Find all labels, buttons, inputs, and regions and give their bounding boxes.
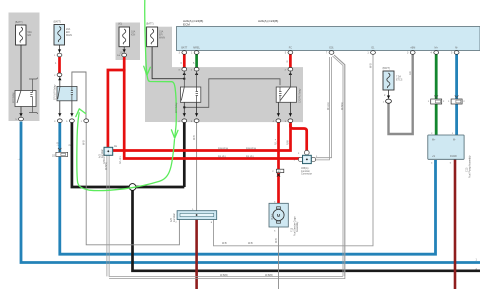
fuse F4 EFI MAIN 15A: [147, 27, 158, 47]
green arrowhead C: [76, 109, 86, 117]
wire red C/OPN relay to fuel pump motor: [277, 123, 280, 204]
svg-text:ETCS: ETCS: [396, 79, 403, 82]
wire red ECM BATT to EFI relay: [183, 55, 186, 68]
svg-text:+S: +S: [432, 155, 435, 158]
wire maroon fuel pump FGND to bottom edge: [454, 159, 457, 289]
fuse F1 EFI 50A: [16, 25, 27, 45]
green highlight line from page top: [145, 0, 147, 75]
inline connector on green M+ wire: [431, 96, 442, 105]
wire gray W-B relay2 coil down to joint box: [86, 123, 179, 245]
svg-text:R/W-R/W: R/W-R/W: [246, 147, 257, 150]
svg-text:EFI: EFI: [28, 34, 32, 37]
connector oval above relay2: [57, 73, 62, 77]
svg-text:M+: M+: [435, 47, 439, 50]
svg-text:MAIN: MAIN: [66, 34, 72, 37]
svg-text:EFI Relay: EFI Relay: [12, 92, 15, 103]
svg-text:W-B(R): W-B(R): [265, 274, 273, 277]
svg-text:R/L: R/L: [274, 141, 277, 145]
svg-text:1G: 1G: [120, 52, 123, 55]
junction dot EFI relay feed: [183, 78, 185, 80]
svg-text:FC: FC: [289, 47, 292, 50]
svg-text:W-L(G): W-L(G): [327, 102, 330, 110]
svg-text:Pump: Pump: [271, 213, 274, 220]
fuse F3 IGN 10A: [119, 27, 130, 47]
svg-text:C/OPN Relay: C/OPN Relay: [299, 88, 302, 103]
svg-text:Junction: Junction: [101, 148, 104, 158]
wire maroon junction box to bottom edge: [195, 220, 198, 289]
green arrowhead B: [171, 130, 178, 138]
gray panel fuse block column 3: [116, 23, 141, 61]
relay R1: [15, 91, 36, 107]
wire relay1 aux contact with off-page hooks: [29, 78, 38, 115]
svg-text:W-B(S): W-B(S): [105, 162, 108, 170]
svg-text:(IG): (IG): [118, 23, 122, 26]
svg-text:W-B: W-B: [370, 63, 373, 68]
wire black EFI relay down: [183, 123, 186, 188]
connector oval below fuse3: [122, 53, 127, 57]
arrow below fuse3: [123, 47, 125, 53]
svg-text:Connector: Connector: [301, 173, 312, 176]
relay U3 C/OPN relay: [276, 87, 296, 102]
svg-text:M-: M-: [453, 139, 456, 142]
svg-text:W-B(R): W-B(R): [220, 274, 228, 277]
inline connector on blue M- wire: [451, 96, 462, 105]
svg-text:W-B: W-B: [248, 242, 253, 245]
wire blue ECM M- to throttle motor: [455, 55, 458, 136]
gray panel fuse column 4: [145, 27, 172, 122]
svg-text:R/W-R/W: R/W-R/W: [218, 147, 229, 150]
fuse F5 ETCS 7.5A: [383, 71, 394, 90]
svg-text:Fuel Pump Assembly: Fuel Pump Assembly: [468, 155, 471, 178]
svg-text:IGN: IGN: [131, 34, 136, 37]
svg-text:Assembly: Assembly: [296, 221, 299, 232]
connector oval below fuse5: [386, 99, 392, 103]
svg-text:L-B: L-B: [56, 142, 59, 146]
svg-text:R/W: R/W: [286, 140, 289, 145]
wire white W-B ECM E01 straight to junction connector B: [316, 57, 330, 160]
arrow below fuse2: [59, 45, 61, 53]
relay U2 EFI relay: [180, 87, 200, 102]
ECM pin ovals: [182, 51, 459, 55]
line ovals to EFI relay: [184, 71, 196, 87]
svg-text:(BATT): (BATT): [54, 21, 62, 24]
svg-text:(BATT): (BATT): [383, 67, 391, 70]
arrows into EFI relay: [183, 72, 186, 75]
svg-text:R/L-R/L: R/L-R/L: [218, 155, 227, 158]
svg-text:Junction: Junction: [173, 212, 176, 222]
svg-text:R/L-R/L: R/L-R/L: [246, 155, 255, 158]
junction dot EFI relay output: [183, 106, 185, 108]
junction connector B round: [298, 150, 315, 163]
relay R2 EFI no2: [57, 86, 77, 100]
svg-text:W-B(R): W-B(R): [341, 102, 344, 110]
wire gray W-B joint box right to ECM E1: [214, 55, 374, 246]
svg-text:GR: GR: [409, 71, 412, 75]
joint connector A (red): [104, 147, 113, 155]
wire black junction drop to bottom bus: [133, 187, 480, 271]
svg-text:MAIN: MAIN: [159, 37, 165, 40]
arrows below relay2: [59, 101, 61, 117]
wire gray W-B EFI relay coil down to joint box top: [196, 123, 198, 211]
svg-text:EFI M/P Relay: EFI M/P Relay: [54, 84, 57, 100]
svg-text:MREL: MREL: [193, 47, 200, 50]
svg-text:A21: A21: [278, 170, 281, 173]
wire relay2 coil to ground branch: [72, 72, 86, 119]
ECM U1 block: [177, 27, 480, 51]
connector ovals below relay2: [57, 119, 62, 123]
wire black relay2/EFI relay to ground bus: [72, 123, 184, 188]
connector oval below fuse2: [57, 53, 62, 57]
svg-text:+BM: +BM: [410, 47, 415, 50]
green arrowhead A: [144, 66, 151, 75]
svg-text:1D: 1D: [52, 155, 55, 158]
gray panel fuse/relay block column 1: [9, 13, 40, 122]
svg-text:(BATT): (BATT): [146, 23, 154, 26]
wire red fuse3 down to lower rail: [124, 69, 301, 159]
pin numbers near connector ovals: [15, 55, 465, 232]
svg-text:(BATT): (BATT): [15, 21, 23, 24]
wire red fuse2 to EFI no2 relay: [58, 57, 61, 73]
svg-text:ECM: ECM: [183, 23, 190, 27]
svg-text:FGND: FGND: [450, 155, 457, 158]
junction node circle on black bus: [129, 184, 136, 191]
arrows below EFI relay: [183, 102, 185, 116]
svg-text:EFI Relay: EFI Relay: [175, 102, 178, 113]
inline connector on pump red wire: [276, 169, 283, 176]
arrow into C/OPN relay: [289, 72, 292, 75]
arrows below C/OPN relay: [277, 102, 279, 116]
connector ovals below C/OPN relay: [276, 119, 281, 123]
svg-text:A24(A),C24(B): A24(A),C24(B): [258, 19, 278, 23]
wire green ECM M+ to throttle motor: [435, 55, 438, 136]
wire red upper rail joint connector A to C/OPN relay: [113, 123, 291, 151]
svg-text:M: M: [277, 213, 281, 218]
svg-text:E01: E01: [329, 47, 334, 50]
svg-text:M-: M-: [455, 47, 458, 50]
arrow into relay2: [59, 77, 61, 87]
arrow below fuse5: [388, 90, 390, 99]
fuse F2 EFI MAIN 20A: [54, 25, 65, 46]
svg-text:BATT: BATT: [181, 47, 187, 50]
wire dark fuse4 feed to EFI relay node: [152, 47, 184, 79]
connector oval relay1 out: [19, 117, 24, 121]
connector ovals above EFI relay: [182, 67, 187, 71]
connector oval above C/OPN relay: [288, 67, 293, 71]
inline connector on blue wire: [56, 148, 68, 157]
fuel sender gage assembly with pump motor M: [269, 203, 288, 227]
wire EFI relay coil loop to C/OPN coil: [184, 79, 280, 108]
svg-text:W-B: W-B: [222, 242, 227, 245]
wire green ECM MREL to EFI relay: [195, 55, 198, 68]
svg-text:W-B: W-B: [275, 238, 278, 243]
svg-text:R/L-R/L: R/L-R/L: [119, 155, 122, 164]
wire white W-B ECM E01 slant to ground bus: [107, 55, 345, 279]
joint box horizontal (junction block): [177, 211, 217, 220]
green highlight elbow to the right then down: [147, 75, 176, 136]
svg-text:W-B: W-B: [193, 135, 196, 140]
wire red fuse3 IG branch left: [108, 57, 124, 147]
wire gray pump ground to bottom: [278, 227, 280, 289]
line oval to C/OPN relay: [289, 71, 291, 87]
svg-text:1E: 1E: [114, 145, 117, 148]
wire blue L from relay1 down and right to page edge: [21, 122, 480, 263]
wire blue L relay2 to fuel pump +S: [60, 123, 436, 255]
arrow into relay1 output: [20, 107, 22, 117]
wire red C/OPN relay branch to junction connector B top: [290, 124, 306, 152]
svg-text:W-B: W-B: [82, 140, 85, 145]
connector ovals below EFI relay: [182, 119, 187, 123]
green highlight sweep down and left to relay2: [77, 113, 175, 191]
wire fuse1 to relay1: [20, 45, 22, 91]
wire thick gray ECM +BM loop to ETCS fuse: [389, 55, 413, 135]
svg-text:1G: 1G: [117, 55, 120, 57]
gray panel relay block middle: [172, 67, 303, 122]
fuel pump assembly / throttle motor box: [428, 135, 464, 159]
wire red ECM FC to C/OPN relay: [289, 55, 292, 68]
